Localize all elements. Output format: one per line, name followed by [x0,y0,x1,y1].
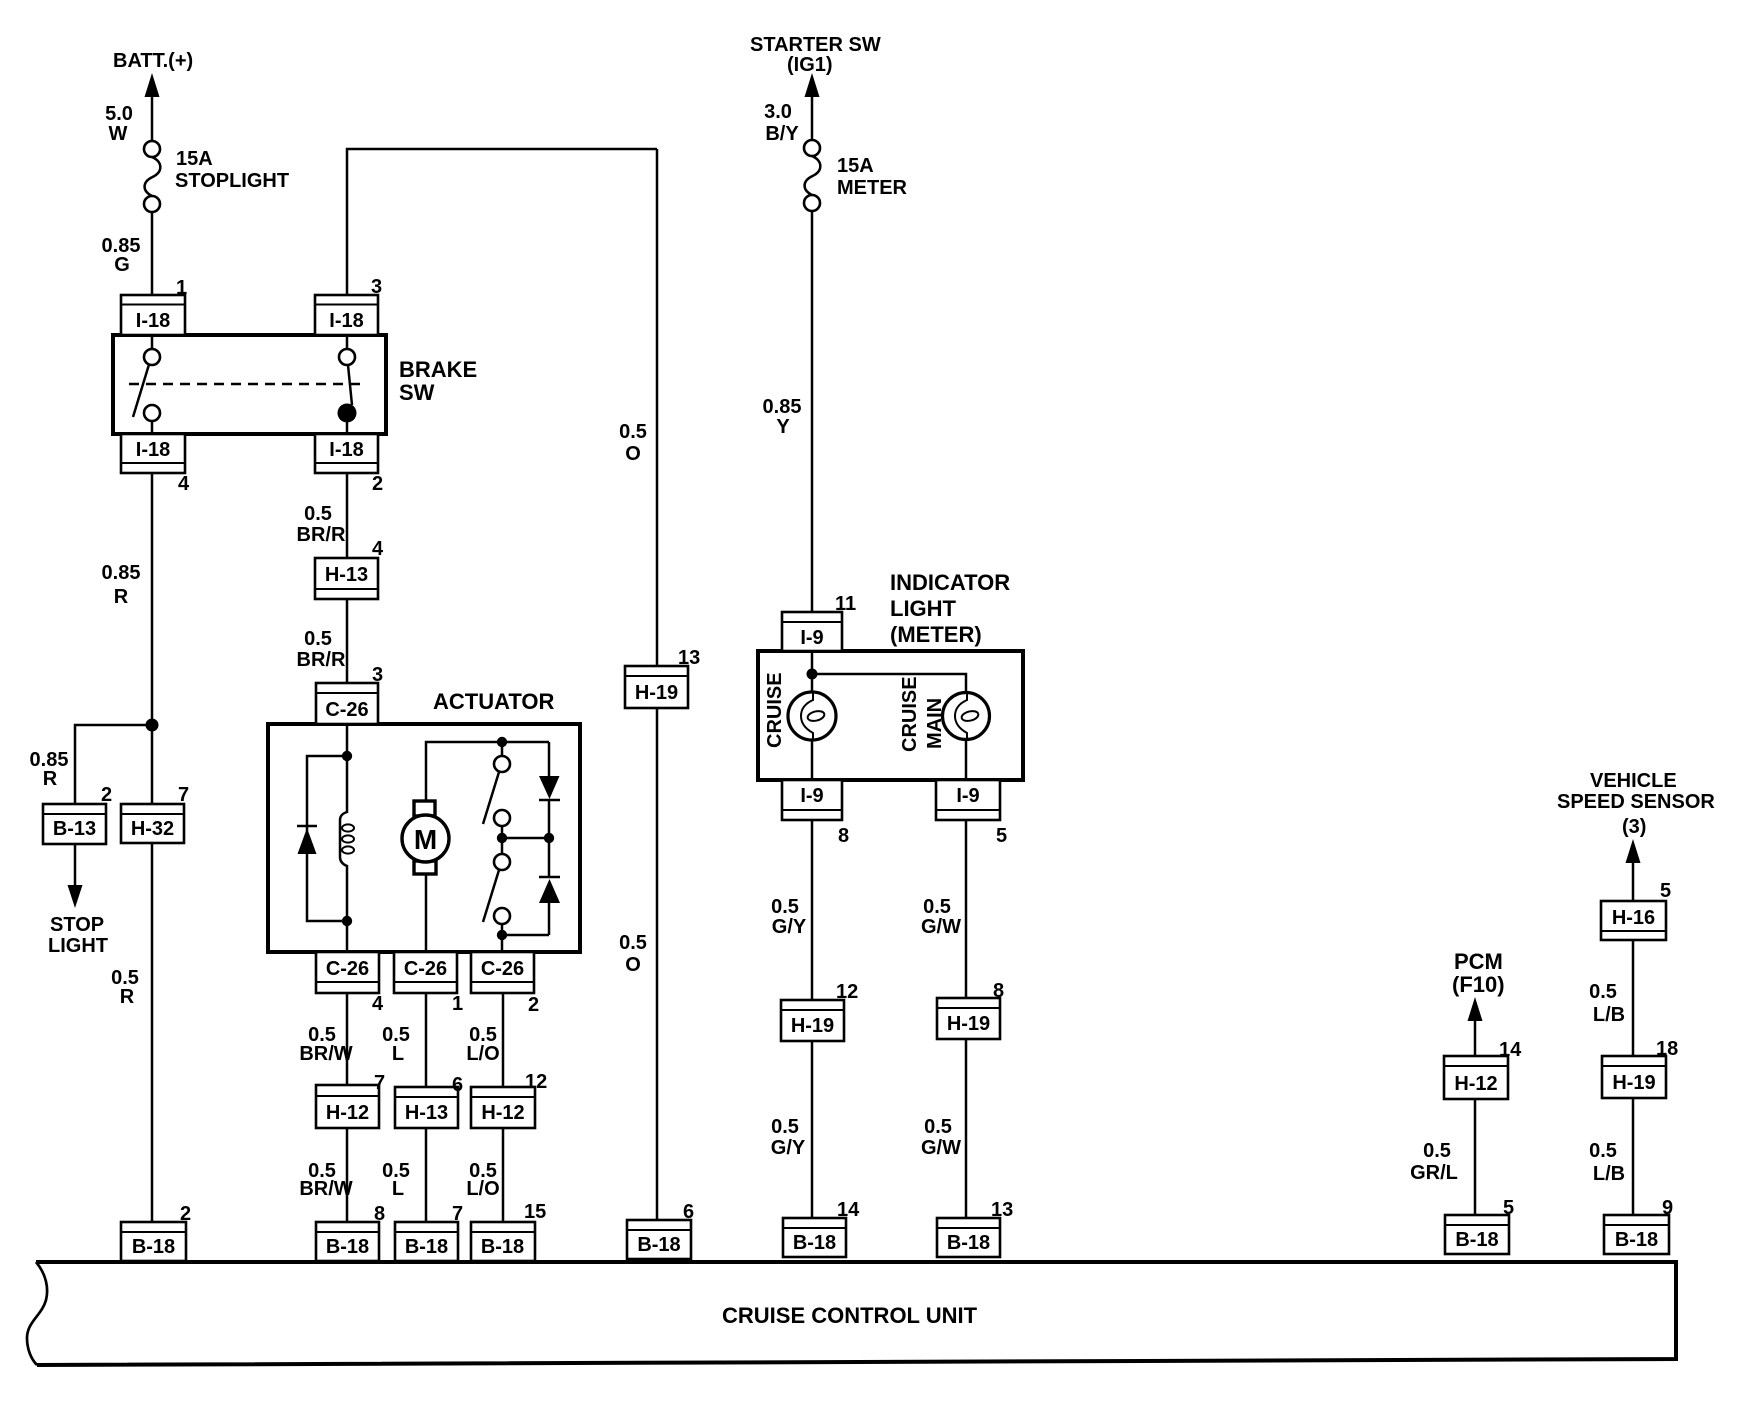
svg-text:CRUISE CONTROL UNIT: CRUISE CONTROL UNIT [722,1303,978,1328]
wire label 0.5 L/O lower [466,1160,499,1200]
fuse 15A METER [804,140,820,211]
svg-text:L/B: L/B [1593,1163,1625,1185]
wire VSS arrow to H-16 pin5 [1632,856,1635,903]
actuator junction dot mid rail [497,833,507,843]
svg-text:B-18: B-18 [637,1234,680,1256]
svg-text:C-26: C-26 [404,958,447,980]
power arrow BATT(+) [145,73,160,97]
actuator clutch coil feed wire with coil jog [340,724,347,952]
actuator diode branch wire middle [548,800,551,877]
svg-text:6: 6 [452,1074,463,1096]
actuator wire between switches [501,826,504,854]
svg-text:I-9: I-9 [800,627,823,649]
svg-text:C-26: C-26 [481,958,524,980]
svg-text:4: 4 [372,538,384,560]
connector I-18 pin 3 [315,295,378,335]
brake switch dashed coupling line [129,383,366,386]
connector H-12 pin 12 [471,1087,535,1128]
svg-text:H-19: H-19 [947,1013,990,1035]
actuator switch S2 lever [483,870,499,922]
svg-text:5: 5 [996,825,1007,847]
svg-text:1: 1 [176,277,187,299]
svg-text:O: O [625,443,641,465]
brake switch contact B bottom (closed, filled) [338,404,357,423]
svg-text:H-13: H-13 [405,1102,448,1124]
svg-text:12: 12 [836,981,858,1003]
svg-text:12: 12 [525,1071,547,1093]
svg-text:0.5: 0.5 [923,896,951,918]
wire label 0.5 BR/W lower [299,1160,352,1200]
svg-text:1: 1 [452,993,463,1015]
wire label 0.85 G [102,235,141,276]
svg-text:CRUISE: CRUISE [899,676,921,752]
svg-text:R: R [43,768,58,790]
connector B-13 pin 2 [43,804,106,844]
svg-text:H-13: H-13 [325,564,368,586]
connector H-16 pin 5 [1601,901,1666,940]
svg-text:0.5: 0.5 [1589,981,1617,1003]
actuator switch S1 bottom contact [494,810,510,826]
wire I-9 pin5 to H-19 pin8 [965,820,968,1000]
actuator switch S1 lever [483,772,499,824]
wire I-18 pin2 to H-13 pin4 [346,473,349,560]
lamp label CRUISE MAIN (rotated) [899,676,946,752]
svg-text:5: 5 [1660,880,1671,902]
wire I-9 pin8 to H-19 pin12 [811,820,814,1002]
svg-text:6: 6 [683,1201,694,1223]
svg-text:I-18: I-18 [136,310,170,332]
indicator lamp CRUISE MAIN wire down [965,739,968,780]
connector I-18 pin 4 [121,434,185,473]
wire label 0.5 G/Y upper [771,896,807,938]
svg-text:0.5: 0.5 [1589,1140,1617,1162]
wire label 0.85 R [102,562,141,608]
svg-text:15A: 15A [176,148,213,170]
actuator switch S2 top contact [494,854,510,870]
svg-text:9: 9 [1662,1197,1673,1219]
connector C-26 pin 2 [471,952,534,993]
wire label 0.5 R [111,967,139,1008]
svg-text:R: R [114,586,129,608]
svg-text:BR/W: BR/W [299,1043,352,1065]
svg-text:(IG1): (IG1) [787,54,833,76]
svg-text:ACTUATOR: ACTUATOR [433,689,555,714]
wire node to H-19 pin13 [656,149,659,668]
brake switch contact A bottom [144,405,160,421]
wire label 0.5 G/W upper [921,896,961,938]
wire H-16 pin5 to H-19 pin18 [1632,939,1635,1058]
connector I-9 pin 11 [782,612,842,651]
svg-text:LIGHT: LIGHT [890,596,957,621]
svg-text:BR/W: BR/W [299,1178,352,1200]
svg-text:4: 4 [178,473,190,495]
actuator wire below S2 [501,924,504,952]
connector H-12 pin 7 [316,1085,379,1128]
wire B-13 to stop light arrow [74,844,77,893]
indicator lamp CRUISE bulb [788,692,836,740]
brake switch lever B [348,365,352,405]
brake switch stub wires B [346,335,349,349]
actuator motor M1 [402,801,449,874]
indicator lamp CRUISE wire down [811,740,814,780]
svg-text:(3): (3) [1622,816,1646,838]
fuse label 15A STOPLIGHT [175,148,289,192]
svg-text:L/O: L/O [466,1043,499,1065]
connector B-18 pin 9 [1604,1215,1669,1254]
wire H-13 pin6 to B-18 pin7 [425,1128,428,1224]
svg-text:GR/L: GR/L [1410,1162,1458,1184]
component label INDICATOR LIGHT (METER) [890,570,1010,647]
wire label 0.5 L/B upper [1589,981,1625,1026]
actuator junction dot top of coil branch [342,751,352,761]
svg-text:G/W: G/W [921,1137,961,1159]
actuator switch S2 bottom contact [494,908,510,924]
svg-text:L/O: L/O [466,1178,499,1200]
svg-text:0.85: 0.85 [102,562,141,584]
brake switch lever A [133,365,149,418]
svg-text:H-12: H-12 [481,1102,524,1124]
svg-text:13: 13 [991,1199,1013,1221]
wire label 0.5 L upper [382,1024,410,1065]
svg-text:2: 2 [180,1203,191,1225]
actuator coil L1 loops [342,824,354,853]
wire fuse1 to I-18 pin1 [151,211,154,296]
svg-text:M: M [414,824,437,855]
svg-text:18: 18 [1656,1038,1678,1060]
svg-text:B-18: B-18 [947,1232,990,1254]
connector B-18 pin 2 [121,1222,186,1261]
wire batt feed [151,90,154,142]
svg-text:15A: 15A [837,155,874,177]
svg-text:H-12: H-12 [326,1102,369,1124]
connector B-18 pin 7 [395,1222,458,1261]
wire H-12 pin14 to B-18 pin5 [1474,1098,1477,1217]
connector H-19 pin 8 [937,998,1000,1039]
wire branch to stop light [75,725,152,806]
svg-text:W: W [109,123,128,145]
svg-text:H-16: H-16 [1612,907,1655,929]
svg-text:BRAKE: BRAKE [399,357,477,382]
connector I-18 pin 2 [315,434,378,473]
connector I-9 pin 8 [782,780,842,820]
net label STOP LIGHT [48,914,108,957]
wire label 0.5 O upper [619,421,647,465]
wire label 0.5 BR/W upper [299,1024,352,1065]
actuator diode branch wire upper [548,742,551,776]
connector B-18 pin 13 [937,1218,1000,1257]
actuator box [268,724,580,952]
svg-text:7: 7 [374,1072,385,1094]
wire fuse2 to I-9 pin11 [811,210,814,614]
net label PCM (F10) [1452,949,1505,997]
svg-text:0.5: 0.5 [619,421,647,443]
actuator diode D2 (points down) [539,776,560,800]
svg-text:G: G [114,254,130,276]
svg-text:G/Y: G/Y [771,1137,806,1159]
connector B-18 pin 5 [1445,1215,1509,1254]
svg-text:H-32: H-32 [131,818,174,840]
cruise control unit box [27,1262,1676,1365]
svg-text:0.5: 0.5 [304,503,332,525]
PCM arrow [1468,997,1483,1021]
actuator diode D3 (points up) [539,877,560,903]
connector B-18 pin 8 [316,1222,379,1261]
svg-text:BATT.(+): BATT.(+) [113,50,193,72]
fuse 15A STOPLIGHT [144,141,160,212]
actuator switch S1 top contact [494,756,510,772]
wire label 0.5 L/O upper [466,1024,499,1065]
svg-text:(F10): (F10) [1452,972,1505,997]
svg-text:B-18: B-18 [132,1236,175,1258]
brake switch box SW1 [113,335,386,434]
actuator junction dot mid rail right [544,833,554,843]
wire label 0.5 GR/L [1410,1140,1458,1184]
svg-text:I-9: I-9 [800,785,823,807]
junction node stoplight branch [146,719,159,732]
svg-text:STOP: STOP [50,914,104,936]
connector C-26 pin 1 [394,952,457,993]
brake switch contact A top [144,349,160,365]
connector H-19 pin 13 [625,666,688,708]
svg-text:H-12: H-12 [1454,1073,1497,1095]
svg-text:BR/R: BR/R [297,524,346,546]
brake switch contact B top [339,349,355,365]
connector I-18 pin 1 [121,295,185,335]
connector I-9 pin 5 [936,780,1000,820]
actuator motor top wire [426,742,549,801]
wire label 0.5 BR/R lower [297,628,346,671]
svg-text:L: L [392,1043,404,1065]
svg-text:B-13: B-13 [53,818,96,840]
wire label 0.5 BR/R upper [297,503,346,546]
svg-text:7: 7 [452,1203,463,1225]
net label STARTER SW (IG1) [750,34,881,76]
connector C-26 pin 4 [316,952,379,993]
svg-text:4: 4 [372,993,384,1015]
svg-text:B-18: B-18 [1615,1229,1658,1251]
connector B-18 pin 15 [471,1222,535,1261]
svg-text:L: L [392,1178,404,1200]
svg-text:STARTER SW: STARTER SW [750,34,881,56]
connector B-18 pin 14 [783,1218,846,1257]
svg-text:SPEED SENSOR: SPEED SENSOR [1557,791,1715,813]
actuator flyback diode branch wire [307,756,347,921]
svg-text:2: 2 [101,784,112,806]
svg-text:MAIN: MAIN [924,698,946,749]
svg-text:CRUISE: CRUISE [764,672,786,748]
svg-text:0.85: 0.85 [763,396,802,418]
svg-text:14: 14 [1499,1039,1522,1061]
svg-text:3: 3 [372,664,383,686]
connector H-19 pin 18 [1602,1056,1666,1098]
svg-text:L/B: L/B [1593,1004,1625,1026]
wire H-19 pin8 to B-18 pin13 [965,1039,968,1220]
svg-text:2: 2 [528,994,539,1016]
svg-text:8: 8 [993,980,1004,1002]
connector C-26 pin 3 [316,683,378,724]
wire label 0.5 L/B lower [1589,1140,1625,1185]
svg-text:0.5: 0.5 [771,1116,799,1138]
svg-text:11: 11 [835,593,856,615]
connector H-12 pin 14 [1444,1056,1508,1099]
svg-text:8: 8 [374,1203,385,1225]
wire H-19 pin13 to B-18 pin6 [656,707,659,1222]
stop light arrow (down) [68,885,83,908]
wire brake sw pin3 up and over to H-19 pin13 [347,149,657,296]
wire label 0.85 R branch [30,749,69,790]
actuator diode D1 (points up) [297,826,317,854]
connector B-18 pin 6 [627,1220,691,1259]
svg-text:(METER): (METER) [890,622,982,647]
actuator bottom rail wire [502,934,549,937]
svg-text:B-18: B-18 [405,1236,448,1258]
svg-text:C-26: C-26 [326,958,369,980]
svg-text:14: 14 [837,1199,860,1221]
svg-text:R: R [120,986,135,1008]
svg-text:I-18: I-18 [329,310,363,332]
svg-text:15: 15 [524,1201,546,1223]
wire starter sw feed [811,90,814,141]
svg-text:0.5: 0.5 [771,896,799,918]
actuator junction dot bottom of coil branch [342,916,352,926]
svg-text:3.0: 3.0 [764,101,792,123]
connector H-13 pin 6 [395,1087,458,1128]
svg-text:PCM: PCM [1454,949,1503,974]
wire label 0.5 L lower [382,1160,410,1200]
svg-text:I-9: I-9 [956,785,979,807]
wire I-18 pin4 down to B-18 pin2 [151,473,154,1224]
svg-text:8: 8 [838,825,849,847]
wire H-13 to C-26 pin3 [346,598,349,685]
wire label 0.5 G/W lower [921,1116,961,1159]
svg-text:13: 13 [678,647,700,669]
svg-text:STOPLIGHT: STOPLIGHT [175,170,289,192]
wire C-26 pin1 to H-13 pin6 [425,992,428,1089]
svg-text:H-19: H-19 [1612,1072,1655,1094]
indicator lamp CRUISE MAIN bulb [943,693,990,741]
wire label 0.5 O lower [619,932,647,976]
svg-text:C-26: C-26 [325,699,368,721]
actuator mid rail wire [502,837,549,840]
wire H-19 pin18 to B-18 pin9 [1632,1098,1635,1217]
actuator junction dot top rail [497,737,507,747]
svg-text:2: 2 [372,473,383,495]
svg-text:7: 7 [178,784,189,806]
svg-text:LIGHT: LIGHT [48,935,108,957]
svg-text:0.5: 0.5 [1423,1140,1451,1162]
wire H-12 pin7 to B-18 pin8 [346,1128,349,1224]
connector H-13 pin 4 [315,558,378,599]
svg-text:VEHICLE: VEHICLE [1590,770,1677,792]
wire label 3.0 B/Y [764,101,799,145]
svg-text:B-18: B-18 [481,1236,524,1258]
svg-text:0.5: 0.5 [304,628,332,650]
svg-text:B-18: B-18 [1455,1229,1498,1251]
wire H-19 pin12 to B-18 pin14 [811,1041,814,1220]
svg-text:B-18: B-18 [793,1232,836,1254]
actuator switch chain wire [501,742,504,757]
wire H-12 pin12 to B-18 pin15 [502,1128,505,1224]
actuator junction dot bottom rail [497,930,507,940]
svg-text:SW: SW [399,380,435,405]
svg-text:I-18: I-18 [136,439,170,461]
net label VEHICLE SPEED SENSOR (3) [1557,770,1715,838]
svg-text:B-18: B-18 [326,1236,369,1258]
svg-text:METER: METER [837,177,908,199]
indicator internal wires [811,651,814,692]
connector H-32 pin 7 [121,804,184,843]
svg-text:I-18: I-18 [329,439,363,461]
svg-text:0.5: 0.5 [924,1116,952,1138]
svg-text:3: 3 [371,276,382,298]
connector H-19 pin 12 [781,1000,844,1041]
svg-text:5.0: 5.0 [105,103,133,125]
component label BRAKE SW [399,357,477,405]
svg-text:O: O [625,954,641,976]
svg-text:5: 5 [1503,1197,1514,1219]
actuator diode branch wire lower [548,903,551,935]
wire label 0.5 G/Y lower [771,1116,806,1159]
fuse label 15A METER [837,155,908,199]
svg-text:BR/R: BR/R [297,649,346,671]
actuator motor bottom wire [425,874,428,952]
svg-text:G/Y: G/Y [772,916,807,938]
wire C-26 pin4 to H-12 pin7 [346,992,349,1087]
svg-text:0.5: 0.5 [619,932,647,954]
wire PCM arrow to H-12 pin14 [1474,1014,1477,1058]
vehicle speed sensor arrow [1626,839,1641,863]
svg-text:G/W: G/W [921,916,961,938]
wire C-26 pin2 to H-12 pin12 [502,992,505,1089]
svg-text:Y: Y [776,416,790,438]
svg-text:H-19: H-19 [791,1015,834,1037]
svg-text:B/Y: B/Y [765,123,799,145]
svg-text:H-19: H-19 [635,682,678,704]
brake switch stub wires A [151,335,154,349]
wire label 0.85 Y [763,396,802,438]
starter sw power arrow [805,73,820,97]
indicator junction dot [807,669,818,680]
wire label 5.0 W [105,103,133,145]
svg-text:INDICATOR: INDICATOR [890,570,1010,595]
indicator light (meter) box [758,651,1023,780]
